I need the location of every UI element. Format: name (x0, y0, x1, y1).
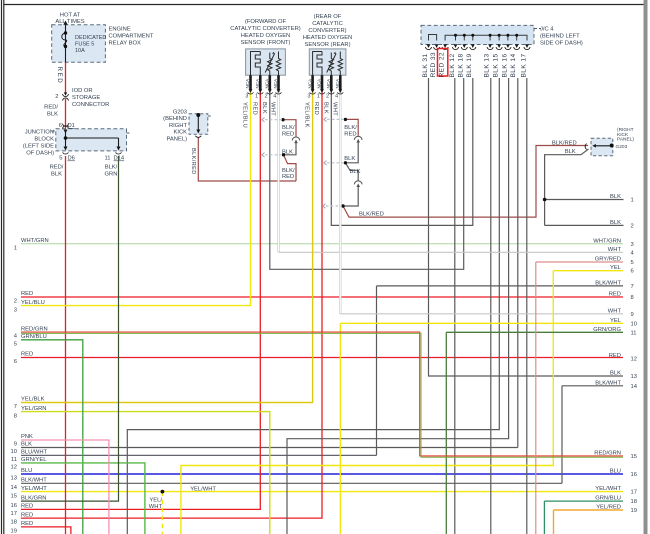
svg-text:G203: G203 (616, 144, 628, 150)
svg-text:14: 14 (631, 384, 638, 390)
svg-text:RED: RED (21, 504, 33, 510)
svg-text:BLK: BLK (610, 220, 621, 226)
svg-text:RED/: RED/ (44, 105, 58, 111)
svg-text:(REAR OF: (REAR OF (314, 14, 342, 20)
svg-text:18: 18 (11, 520, 17, 526)
svg-text:PANEL): PANEL) (617, 137, 634, 143)
svg-text:13: 13 (631, 374, 637, 380)
svg-text:BLK 13: BLK 13 (484, 53, 491, 77)
svg-text:GRN/BLU: GRN/BLU (21, 334, 47, 340)
svg-text:DEDICATED: DEDICATED (75, 35, 106, 41)
svg-text:BLK/: BLK/ (105, 165, 118, 171)
svg-text:BLK: BLK (610, 194, 621, 200)
svg-text:BLK/WHT: BLK/WHT (21, 478, 47, 484)
svg-text:BLK 15: BLK 15 (493, 53, 500, 77)
svg-text:7: 7 (631, 284, 634, 290)
svg-text:NCA: NCA (307, 78, 312, 89)
svg-text:3: 3 (14, 308, 17, 314)
svg-text:8: 8 (631, 295, 634, 301)
svg-text:HEATED OXYGEN: HEATED OXYGEN (241, 33, 291, 39)
svg-text:YEL/BLU: YEL/BLU (242, 102, 248, 128)
svg-text:BLK: BLK (610, 371, 621, 377)
svg-text:RED: RED (21, 512, 33, 518)
svg-text:NCA: NCA (255, 78, 260, 89)
svg-text:BLK: BLK (322, 102, 328, 114)
svg-text:HOT AT: HOT AT (60, 12, 81, 18)
svg-text:6: 6 (14, 359, 17, 365)
svg-text:BLK/: BLK/ (344, 125, 357, 131)
svg-text:YEL/WHT: YEL/WHT (190, 487, 216, 493)
svg-text:D1: D1 (68, 123, 75, 129)
svg-text:RED 33: RED 33 (430, 52, 437, 78)
svg-text:YEL/RED: YEL/RED (596, 505, 621, 511)
svg-text:10: 10 (631, 321, 637, 327)
svg-text:WHT: WHT (608, 308, 622, 314)
svg-text:RIGHT: RIGHT (169, 123, 187, 129)
svg-text:G203: G203 (173, 110, 187, 116)
svg-text:YEL/WHT: YEL/WHT (21, 486, 47, 492)
svg-text:RED: RED (344, 131, 356, 137)
svg-text:BLK: BLK (565, 149, 576, 155)
svg-text:BLK: BLK (21, 442, 32, 448)
svg-text:3: 3 (245, 94, 248, 100)
svg-text:RED/GRN: RED/GRN (21, 326, 48, 332)
svg-text:(FORWARD OF: (FORWARD OF (245, 19, 287, 25)
svg-text:BLK: BLK (51, 172, 62, 178)
svg-text:RED: RED (609, 353, 621, 359)
svg-text:GRN: GRN (105, 172, 118, 178)
svg-text:J/C 4: J/C 4 (540, 27, 554, 33)
svg-text:BLK 16: BLK 16 (501, 53, 508, 77)
svg-text:BLK/WHT: BLK/WHT (595, 280, 621, 286)
svg-text:BLU: BLU (610, 469, 621, 475)
svg-text:ENGINE: ENGINE (109, 27, 131, 33)
svg-text:3: 3 (631, 242, 634, 248)
svg-text:11: 11 (104, 156, 110, 162)
svg-text:12: 12 (11, 465, 17, 471)
svg-text:GRN/ORG: GRN/ORG (593, 327, 621, 333)
svg-text:2: 2 (55, 94, 58, 100)
svg-text:12: 12 (631, 357, 637, 363)
svg-text:ALL TIMES: ALL TIMES (55, 19, 84, 25)
svg-text:KICK: KICK (173, 130, 187, 136)
svg-text:4: 4 (273, 94, 276, 100)
svg-text:WHT: WHT (270, 102, 276, 116)
svg-text:BLK/WHT: BLK/WHT (595, 380, 621, 386)
svg-text:2: 2 (265, 94, 268, 100)
svg-text:9: 9 (631, 312, 634, 318)
svg-text:JUNCTION: JUNCTION (25, 130, 54, 136)
svg-text:10: 10 (11, 449, 17, 455)
svg-text:CONVERTER): CONVERTER) (308, 28, 346, 34)
svg-text:7: 7 (14, 404, 17, 410)
svg-text:SIDE OF DASH): SIDE OF DASH) (540, 41, 583, 47)
svg-text:YEL/WHT: YEL/WHT (595, 486, 621, 492)
svg-text:BLK 19: BLK 19 (466, 53, 473, 77)
svg-text:RED: RED (21, 521, 33, 527)
svg-text:SENSOR (REAR): SENSOR (REAR) (304, 42, 350, 48)
svg-text:5: 5 (631, 260, 634, 266)
svg-text:YEL/BLK: YEL/BLK (304, 102, 310, 128)
svg-text:D6: D6 (68, 156, 75, 162)
svg-text:BLK/RED: BLK/RED (190, 148, 196, 175)
svg-text:GRN/BLU: GRN/BLU (595, 496, 621, 502)
svg-text:NCA: NCA (245, 78, 250, 89)
svg-text:RED: RED (56, 67, 63, 85)
svg-text:BLK/: BLK/ (282, 125, 295, 131)
svg-text:2: 2 (326, 94, 329, 100)
svg-text:BLK: BLK (350, 169, 361, 175)
svg-text:FUSE 5: FUSE 5 (75, 42, 94, 48)
svg-text:SENSOR (FRONT): SENSOR (FRONT) (241, 40, 291, 46)
svg-text:NCA: NCA (326, 78, 331, 89)
svg-text:BLK: BLK (282, 149, 293, 155)
svg-text:BLK 17: BLK 17 (520, 53, 527, 77)
svg-text:4: 4 (335, 94, 338, 100)
svg-text:BLU: BLU (21, 468, 32, 474)
svg-text:16: 16 (631, 472, 637, 478)
svg-text:RED: RED (21, 291, 33, 297)
svg-text:BLK 31: BLK 31 (422, 53, 429, 77)
svg-text:RED: RED (282, 132, 294, 138)
svg-text:6: 6 (59, 123, 62, 129)
svg-text:GRN/YEL: GRN/YEL (21, 457, 47, 463)
svg-text:11: 11 (11, 457, 17, 463)
svg-text:17: 17 (11, 511, 17, 517)
svg-text:RELAY BOX: RELAY BOX (109, 41, 141, 47)
svg-text:BLK 12: BLK 12 (449, 53, 456, 77)
svg-text:YEL/BLU: YEL/BLU (21, 300, 45, 306)
svg-text:BLK/GRN: BLK/GRN (21, 495, 46, 501)
svg-text:HEATED OXYGEN: HEATED OXYGEN (303, 35, 353, 41)
svg-text:8: 8 (14, 413, 17, 419)
svg-text:GRY/RED: GRY/RED (595, 257, 621, 263)
svg-text:BLK: BLK (344, 156, 355, 162)
svg-text:(BEHIND LEFT: (BEHIND LEFT (540, 34, 580, 40)
svg-text:BLK 14: BLK 14 (510, 53, 517, 77)
svg-text:CATALYTIC CONVERTER): CATALYTIC CONVERTER) (230, 26, 300, 32)
svg-text:NCA: NCA (317, 78, 322, 89)
svg-text:D14: D14 (114, 156, 125, 162)
svg-text:15: 15 (631, 454, 637, 460)
svg-text:BLU/WHT: BLU/WHT (21, 450, 48, 456)
svg-text:NCA: NCA (335, 78, 340, 89)
svg-text:RED: RED (609, 292, 621, 298)
svg-text:YEL/: YEL/ (149, 498, 162, 504)
svg-text:WHT: WHT (331, 102, 337, 116)
svg-text:14: 14 (11, 485, 18, 491)
svg-text:16: 16 (11, 503, 17, 509)
svg-text:15: 15 (11, 493, 17, 499)
svg-text:WHT/GRN: WHT/GRN (21, 238, 49, 244)
svg-text:RED: RED (21, 352, 33, 358)
svg-text:1: 1 (317, 94, 320, 100)
svg-text:BLK: BLK (47, 112, 58, 118)
svg-text:NCA: NCA (273, 78, 278, 89)
svg-text:17: 17 (631, 490, 637, 496)
svg-text:BLOCK: BLOCK (34, 137, 54, 143)
svg-text:RED 22: RED 22 (439, 52, 446, 78)
svg-text:IOD OR: IOD OR (72, 88, 93, 94)
svg-text:BLK/RED: BLK/RED (552, 140, 577, 146)
svg-text:2: 2 (14, 299, 17, 305)
svg-text:YEL: YEL (610, 318, 622, 324)
svg-text:19: 19 (631, 508, 637, 514)
svg-text:OF DASH): OF DASH) (26, 151, 54, 157)
svg-text:18: 18 (631, 499, 637, 505)
svg-text:6: 6 (631, 269, 634, 275)
svg-text:STORAGE: STORAGE (72, 95, 100, 101)
svg-text:(BEHIND: (BEHIND (163, 116, 187, 122)
svg-text:CATALYTIC: CATALYTIC (312, 21, 343, 27)
svg-text:11: 11 (631, 330, 637, 336)
svg-text:RED/: RED/ (50, 165, 64, 171)
svg-text:PNK: PNK (21, 434, 33, 440)
svg-text:WHT: WHT (149, 504, 163, 510)
svg-text:1: 1 (255, 94, 258, 100)
svg-text:BLK/: BLK/ (282, 168, 295, 174)
svg-text:YEL/GRN: YEL/GRN (21, 406, 46, 412)
svg-text:WHT: WHT (608, 247, 622, 253)
svg-text:YEL/BLK: YEL/BLK (21, 397, 45, 403)
svg-text:COMPARTMENT: COMPARTMENT (109, 34, 154, 40)
svg-text:CONNECTOR: CONNECTOR (72, 102, 109, 108)
svg-text:(LEFT SIDE: (LEFT SIDE (23, 144, 54, 150)
svg-text:BLK 18: BLK 18 (458, 53, 465, 77)
svg-text:NCA: NCA (265, 78, 270, 89)
svg-text:RED: RED (313, 102, 319, 115)
svg-text:3: 3 (307, 94, 310, 100)
svg-text:9: 9 (14, 442, 17, 448)
svg-text:1: 1 (14, 246, 17, 252)
svg-text:RED: RED (282, 174, 294, 180)
svg-text:2: 2 (631, 223, 634, 229)
svg-text:YEL: YEL (610, 265, 622, 271)
svg-text:5: 5 (14, 342, 17, 348)
svg-text:1: 1 (631, 198, 634, 204)
svg-text:13: 13 (11, 476, 17, 482)
svg-text:RED: RED (251, 102, 257, 115)
svg-text:10A: 10A (75, 48, 85, 54)
svg-text:WHT/GRN: WHT/GRN (593, 238, 621, 244)
svg-text:PANEL): PANEL) (166, 136, 187, 142)
svg-text:RED/GRN: RED/GRN (594, 450, 621, 456)
svg-text:BLK/RED: BLK/RED (359, 212, 384, 218)
svg-text:BLK: BLK (261, 102, 267, 114)
svg-text:5: 5 (59, 156, 62, 162)
svg-text:19: 19 (11, 529, 17, 534)
